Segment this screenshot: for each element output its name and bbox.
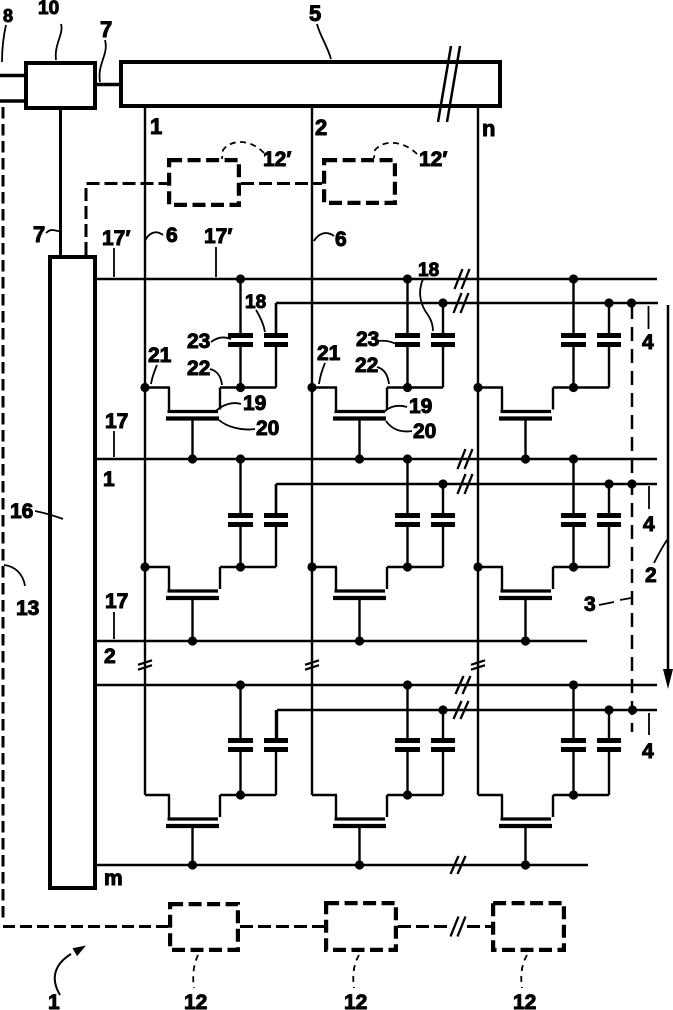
svg-text:n: n: [482, 116, 495, 141]
svg-text:23: 23: [356, 328, 379, 351]
svg-text:4: 4: [642, 331, 654, 354]
svg-text:1: 1: [150, 114, 162, 139]
svg-text:12′: 12′: [419, 148, 447, 171]
svg-text:21: 21: [317, 342, 341, 365]
svg-text:21: 21: [148, 344, 172, 367]
svg-text:1: 1: [48, 991, 60, 1010]
svg-text:20: 20: [256, 417, 279, 440]
svg-text:2: 2: [104, 645, 116, 668]
svg-text:12: 12: [184, 991, 207, 1010]
svg-text:5: 5: [309, 1, 321, 26]
svg-text:3: 3: [584, 593, 596, 616]
svg-text:8: 8: [3, 6, 13, 26]
svg-text:13: 13: [16, 597, 39, 620]
svg-text:2: 2: [315, 115, 327, 140]
svg-text:12′: 12′: [263, 148, 291, 171]
svg-text:7: 7: [33, 222, 45, 247]
svg-text:1: 1: [103, 468, 115, 491]
svg-text:18: 18: [418, 260, 439, 281]
svg-text:2: 2: [645, 564, 657, 587]
svg-text:10: 10: [38, 0, 59, 19]
svg-text:22: 22: [355, 354, 378, 377]
svg-text:4: 4: [642, 740, 654, 763]
svg-text:17′: 17′: [204, 225, 232, 248]
svg-text:m: m: [104, 867, 123, 890]
svg-text:19: 19: [409, 395, 432, 418]
svg-text:23: 23: [187, 330, 210, 353]
svg-text:12: 12: [344, 991, 367, 1010]
svg-text:17: 17: [105, 410, 128, 433]
svg-text:20: 20: [413, 420, 436, 443]
svg-text:17: 17: [105, 590, 128, 613]
svg-text:17′: 17′: [102, 227, 130, 250]
svg-text:4: 4: [643, 513, 655, 536]
svg-text:19: 19: [243, 392, 266, 415]
svg-text:7: 7: [100, 17, 112, 42]
svg-text:16: 16: [10, 500, 33, 523]
svg-text:6: 6: [335, 228, 347, 251]
svg-text:6: 6: [166, 224, 178, 247]
svg-text:12: 12: [513, 991, 536, 1010]
svg-text:18: 18: [245, 292, 266, 313]
svg-text:22: 22: [187, 357, 210, 380]
